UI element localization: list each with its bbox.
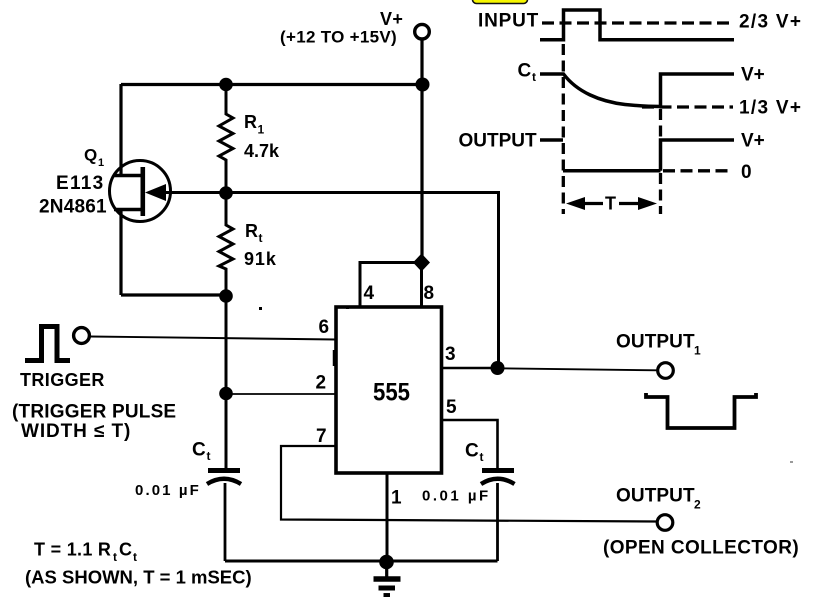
svg-text:7: 7 (316, 426, 327, 447)
svg-text:WIDTH ≤ T): WIDTH ≤ T) (21, 421, 131, 442)
node top rail / R1 junction (219, 78, 233, 92)
capacitor C (right, pin5) (481, 471, 515, 562)
speck (790, 461, 793, 463)
wire gate to pin3 net (166, 193, 499, 369)
node pin3 junction (491, 361, 505, 375)
svg-text:(OPEN COLLECTOR): (OPEN COLLECTOR) (603, 538, 799, 559)
svg-text:1: 1 (694, 344, 701, 358)
trigger terminal (74, 328, 90, 344)
ground (374, 562, 401, 595)
svg-text:0.01 µF: 0.01 µF (422, 488, 491, 505)
pin 3 wire (441, 367, 497, 370)
svg-text:t: t (259, 231, 263, 245)
node gate junction (219, 186, 233, 200)
svg-text:V+: V+ (741, 131, 765, 152)
svg-text:0: 0 (741, 162, 752, 183)
output low level (563, 169, 661, 173)
svg-text:1: 1 (258, 123, 265, 137)
1/3 V+ dashed level (642, 105, 733, 108)
pin 1 wire (386, 473, 389, 561)
svg-text:4.7k: 4.7k (244, 141, 280, 161)
OUTPUT1 terminal (658, 363, 674, 379)
IC U1 555 (336, 307, 442, 473)
wire trigger to pin 6 (90, 337, 336, 340)
svg-text:t: t (133, 550, 137, 564)
svg-text:(TRIGGER PULSE: (TRIGGER PULSE (12, 402, 176, 423)
V+ terminal (415, 24, 430, 39)
input waveform (540, 10, 734, 40)
svg-text:t: t (207, 449, 211, 463)
svg-text:t: t (480, 450, 484, 464)
svg-text:C: C (465, 441, 479, 462)
svg-text:T = 1.1 R: T = 1.1 R (34, 540, 111, 560)
node V+ rail junction (416, 78, 430, 92)
svg-text:1: 1 (98, 157, 104, 169)
svg-text:2/3 V+: 2/3 V+ (739, 12, 802, 33)
wire source to R-chain (121, 293, 226, 296)
svg-text:OUTPUT: OUTPUT (616, 486, 695, 507)
svg-text:4: 4 (364, 283, 375, 304)
node pin2 junction (219, 387, 233, 401)
svg-text:91k: 91k (244, 249, 277, 269)
svg-text:C: C (119, 540, 132, 560)
pin 7 wire (281, 446, 657, 522)
wire top rail (121, 83, 422, 86)
svg-text:R: R (244, 112, 257, 132)
node Rt bottom junction (219, 289, 233, 303)
svg-text:E113: E113 (56, 173, 105, 194)
resistor R1 (219, 84, 233, 193)
2/3 V+ dashed level (542, 21, 733, 24)
svg-text:C: C (518, 61, 532, 82)
node ground junction (379, 555, 394, 570)
svg-text:T: T (605, 194, 616, 214)
resistor Rt (219, 193, 233, 296)
wire pin 2 (226, 393, 335, 395)
Ct waveform (540, 74, 661, 107)
wire V+ stem (420, 39, 423, 263)
ink blob on 555 left edge (333, 350, 338, 366)
dashed marker T start (562, 44, 565, 214)
pin 5 wire (441, 420, 498, 470)
svg-text:2: 2 (694, 498, 701, 512)
wire pin3 to OUTPUT1 (497, 368, 658, 370)
pin 8 wire (420, 262, 423, 307)
svg-text:C: C (192, 440, 206, 461)
svg-text:1/3 V+: 1/3 V+ (739, 98, 802, 119)
svg-text:1: 1 (391, 488, 402, 509)
Ct V+ jump (661, 74, 735, 107)
svg-text:V+: V+ (380, 9, 403, 29)
node pin8/V+ junction (413, 254, 430, 272)
wire bottom rail (225, 560, 498, 563)
output rising edge and V+ level (661, 140, 735, 171)
wire R-chain down to Ct (225, 296, 228, 469)
0 dashed level (663, 169, 733, 172)
svg-text:R: R (245, 221, 258, 241)
trigger pulse glyph (25, 327, 70, 361)
svg-text:t: t (532, 70, 536, 84)
svg-text:(AS SHOWN, T = 1 mSEC): (AS SHOWN, T = 1 mSEC) (25, 567, 252, 588)
svg-text:TRIGGER: TRIGGER (20, 370, 105, 390)
svg-text:8: 8 (424, 283, 435, 304)
yellow highlight tab (473, 0, 528, 4)
transistor Q1 (JFET 2N4861) (110, 161, 171, 222)
speck (346, 306, 349, 309)
svg-text:3: 3 (445, 344, 456, 365)
svg-text:Q: Q (84, 146, 97, 165)
pin 4 wire (360, 263, 422, 308)
svg-text:OUTPUT: OUTPUT (459, 131, 538, 152)
svg-text:OUTPUT: OUTPUT (616, 332, 695, 353)
svg-text:0.01 µF: 0.01 µF (135, 482, 201, 499)
wire source vertical (119, 209, 122, 295)
OUTPUT2 terminal (657, 515, 673, 531)
T dimension arrows (566, 194, 657, 214)
svg-text:V+: V+ (741, 65, 765, 86)
svg-text:2N4861: 2N4861 (39, 197, 107, 218)
svg-text:t: t (113, 550, 117, 564)
svg-text:INPUT: INPUT (478, 11, 539, 32)
svg-text:(+12 TO +15V): (+12 TO +15V) (280, 28, 397, 47)
svg-text:555: 555 (373, 379, 410, 407)
svg-text:5: 5 (446, 397, 457, 418)
capacitor Ct (left) (207, 471, 241, 562)
svg-text:6: 6 (319, 317, 330, 338)
wire drain vertical (119, 84, 122, 176)
dashed marker T end (659, 109, 662, 138)
OUTPUT1 waveform glyph (646, 393, 756, 428)
output lead segment (540, 138, 563, 142)
speck (259, 307, 262, 310)
svg-text:2: 2 (316, 373, 327, 394)
